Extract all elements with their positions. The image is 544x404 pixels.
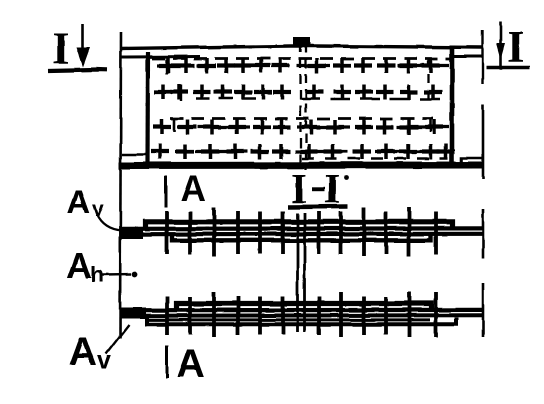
section cut bar A (lower): [166, 346, 169, 378]
splice joint blob at top centre: [294, 38, 311, 47]
svg-text:A: A: [176, 342, 205, 386]
lower splice elevation: top angle line: [177, 304, 432, 311]
right flange post (plan): [450, 47, 455, 166]
hidden vertical dash row2 left: [180, 85, 182, 101]
section cut bar A (upper): [165, 175, 168, 208]
leader line from Ah with dot: [102, 272, 137, 278]
rivet ticks lower splice elevation: [167, 292, 436, 337]
centre splice dashed vertical (right line): [305, 44, 307, 170]
short vertical tick right of view: [481, 30, 483, 84]
hidden vertical dashed near right post: [427, 58, 429, 100]
lower splice elevation: angle line 4: [147, 318, 430, 321]
weld label Ah: [66, 245, 103, 287]
section mark underline (top-right): [486, 66, 530, 70]
svg-text:I: I: [507, 22, 525, 72]
bottom chord thick line: [119, 162, 483, 170]
top chord second line (right): [450, 55, 482, 58]
rivet row 2 (plan view): [154, 85, 442, 100]
leader line from upper Av: [97, 214, 122, 231]
lower splice left end blob: [121, 308, 146, 319]
svg-text:A: A: [180, 168, 206, 209]
section mark underline (top-left): [48, 70, 107, 71]
svg-text:I: I: [52, 24, 70, 74]
left flange post (plan): [145, 52, 150, 163]
upper splice right edge vertical: [482, 209, 485, 259]
hidden edge dashes below row 2 left: [196, 97, 262, 100]
svg-text:A: A: [68, 330, 97, 374]
web connector double vertical between bands: [298, 213, 305, 332]
rivet row 3 (plan view): [153, 120, 449, 135]
svg-text:h: h: [90, 262, 103, 287]
lower splice elevation: flange line 3: [122, 313, 483, 317]
weld label Av (upper): [67, 184, 104, 221]
svg-text:A: A: [67, 184, 90, 220]
right outer vertical edge line (lower part): [482, 105, 485, 179]
bottom chord inner line right: [462, 158, 484, 165]
section title I-I: [291, 167, 348, 213]
rivet ticks upper splice elevation: [167, 207, 436, 257]
upper splice elevation: flange line 2: [122, 226, 483, 231]
upper splice elevation: flange line 3: [122, 232, 483, 237]
section title underline: [288, 204, 348, 209]
lower splice elevation: flange line 2: [122, 308, 483, 313]
section arrow (top-left, pointing down): [77, 24, 91, 67]
hidden edge dashes below row 4 right: [302, 157, 448, 160]
upper splice elevation: bottom angle line: [173, 234, 432, 240]
hidden vertical dash near left post: [165, 59, 167, 74]
left outer vertical edge line: [120, 32, 121, 338]
top chord line: [120, 46, 482, 49]
leader line from lower Av: [106, 325, 129, 355]
upper splice elevation: top angle line: [146, 222, 453, 229]
hidden plate edge dashed line above row 1: [152, 57, 450, 60]
lower splice elevation: bottom angle line: [147, 317, 457, 324]
hidden plate edge dashed line above row 3: [170, 117, 433, 120]
rivet row 1 (plan view): [157, 58, 449, 73]
svg-text:A: A: [66, 245, 92, 286]
centre splice dashed vertical (left line): [299, 42, 301, 170]
weld label Av (lower): [68, 330, 111, 375]
upper splice left end blob: [120, 227, 143, 239]
hidden edge corner dash left (row3): [173, 118, 176, 132]
lower splice right edge vertical: [482, 283, 485, 337]
rivet row 4 (plan view): [151, 144, 455, 159]
hidden edge dashes below row 2 right: [300, 98, 447, 101]
hidden edge corner dash right (row3): [429, 118, 432, 132]
short dash left of row4: [122, 153, 146, 156]
top chord second line (left): [121, 55, 200, 59]
section arrow line (top-right): [496, 21, 505, 66]
